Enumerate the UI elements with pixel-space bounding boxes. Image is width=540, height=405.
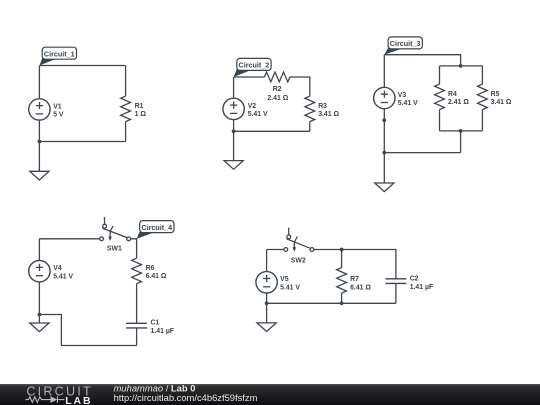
wire V2 top [233, 77, 235, 98]
ground G5 [257, 323, 276, 332]
svg-text:6.41 Ω: 6.41 Ω [146, 273, 167, 280]
svg-text:1.41 µF: 1.41 µF [151, 328, 175, 335]
switch SW2 [284, 228, 314, 252]
resistor R4 [435, 84, 445, 110]
svg-text:R7: R7 [350, 276, 359, 283]
svg-text:http://circuitlab.com/c4b6zf59: http://circuitlab.com/c4b6zf59fsfzm [114, 392, 258, 403]
svg-text:2.41 Ω: 2.41 Ω [448, 99, 469, 106]
V2 minus sign [230, 112, 237, 114]
wire top C1 [39, 65, 125, 67]
callout Circuit_4 [137, 221, 174, 239]
svg-text:V4: V4 [53, 265, 62, 272]
node junction C3 bottom bar [459, 129, 463, 133]
switch SW1 [100, 217, 131, 241]
resistor R6 [132, 258, 142, 284]
svg-text:R2: R2 [273, 86, 282, 93]
voltage source V4 [29, 261, 50, 282]
wire R5 top [481, 66, 483, 84]
svg-text:6.41 Ω: 6.41 Ω [350, 285, 371, 292]
svg-text:1.41 µF: 1.41 µF [410, 284, 434, 291]
ground stem C2 [233, 131, 235, 160]
V5 plus sign [263, 275, 270, 282]
V5 minus sign [263, 286, 270, 288]
wire right-lower C1 [125, 122, 127, 142]
ground stem C4 [38, 315, 40, 324]
ground G1 [30, 171, 49, 180]
V3 minus sign [381, 102, 388, 104]
voltage source V3 [374, 87, 395, 108]
svg-text:R4: R4 [448, 91, 457, 98]
node junction C1 bottom [38, 140, 42, 144]
wire R7 bottom [341, 293, 343, 303]
svg-text:V1: V1 [53, 103, 62, 110]
wire V5 top [266, 250, 268, 272]
capacitor C2 [385, 279, 406, 284]
wire top-right C2 [290, 77, 310, 96]
V4 plus sign [36, 264, 43, 271]
wire top-left C4 [39, 238, 99, 240]
svg-text:1 Ω: 1 Ω [135, 111, 147, 118]
logo resistor zigzag and diode [26, 396, 65, 403]
wire V4 bottom [38, 282, 40, 315]
svg-text:5.41 V: 5.41 V [248, 111, 268, 118]
wire C2 cap bottom [395, 283, 397, 303]
wire C1 cap bottom [136, 328, 138, 346]
wire R4 bottom [439, 110, 441, 131]
svg-text:LAB: LAB [65, 395, 92, 405]
wire parallel bottom bar [440, 130, 483, 132]
node junction C2 bottom [232, 129, 236, 133]
svg-text:C1: C1 [151, 320, 160, 327]
wire V5 bottom [266, 293, 268, 303]
wire bottom C2 [234, 130, 310, 132]
wire V3 bottom [383, 109, 385, 153]
svg-text:Circuit_1: Circuit_1 [44, 49, 75, 58]
wire top-left C5 [267, 249, 284, 251]
V2 plus sign [230, 102, 237, 109]
svg-text:Circuit_3: Circuit_3 [390, 39, 421, 48]
resistor R7 [337, 268, 347, 294]
wire R4 top [439, 66, 441, 84]
wire parallel top bar [440, 65, 483, 67]
ground G4 [30, 323, 49, 332]
svg-text:5.41 V: 5.41 V [53, 273, 73, 280]
wire bottom C3 [384, 152, 460, 154]
svg-text:5.41 V: 5.41 V [280, 285, 300, 292]
node junction C3 bottom-left [382, 151, 386, 155]
svg-text:V2: V2 [248, 103, 257, 110]
ground G3 [375, 183, 394, 192]
wire V1 top [38, 66, 40, 99]
V4 minus sign [36, 275, 43, 277]
node junction V3 terminal [382, 118, 386, 122]
wire R5 bottom [481, 110, 483, 131]
svg-text:R3: R3 [318, 103, 327, 110]
svg-text:Circuit_2: Circuit_2 [239, 61, 270, 70]
V3 plus sign [381, 91, 388, 98]
node junction C5 V5 bottom [265, 301, 269, 305]
wire R7 top [341, 250, 343, 268]
node junction C5 R7 top [340, 248, 344, 252]
wire right-lower C2 [309, 122, 311, 132]
svg-text:R1: R1 [135, 103, 144, 110]
V1 minus sign [36, 113, 43, 115]
callout Circuit_1 [40, 47, 77, 65]
svg-text:SW2: SW2 [291, 258, 306, 265]
wire top-left C2 [234, 76, 265, 78]
wire right-upper C1 [125, 66, 127, 97]
svg-text:5.41 V: 5.41 V [398, 100, 418, 107]
resistor R5 [478, 84, 488, 110]
ground stem C3 [383, 153, 385, 183]
svg-text:5 V: 5 V [53, 112, 64, 119]
wire V3 top [383, 55, 385, 88]
wire bottom C4 [39, 315, 136, 346]
svg-text:R5: R5 [491, 91, 500, 98]
callout Circuit_2 [234, 58, 272, 77]
svg-text:SW1: SW1 [107, 246, 122, 253]
ground G2 [224, 161, 243, 170]
svg-text:Circuit_4: Circuit_4 [141, 223, 172, 232]
node junction C3 top bar [459, 64, 463, 68]
V1 plus sign [36, 102, 43, 109]
resistor R1 [121, 96, 131, 122]
svg-text:C2: C2 [410, 276, 419, 283]
wire bottom C1 [39, 141, 125, 143]
svg-text:V3: V3 [398, 92, 407, 99]
wire bottom C5 [267, 302, 396, 304]
wire V1 bottom [38, 120, 40, 141]
wire top C3 [384, 55, 460, 66]
wire switch to C2 cap corner [314, 250, 396, 279]
resistor R2 [264, 72, 290, 82]
voltage source V5 [256, 272, 277, 293]
node junction C4 bottom [38, 313, 42, 317]
wire R6 to C1 cap [136, 284, 138, 324]
wire parallel to bottom [460, 131, 462, 153]
svg-text:V5: V5 [280, 276, 289, 283]
callout Circuit_3 [384, 37, 422, 55]
node junction C5 R7 bottom [340, 301, 344, 305]
wire V4 top [38, 239, 40, 261]
wire switch to corner C4 [131, 239, 137, 258]
resistor R3 [305, 96, 315, 122]
ground stem C1 [38, 142, 40, 172]
voltage source V1 [29, 99, 50, 120]
wire V2 bottom [233, 120, 235, 132]
svg-text:R6: R6 [146, 265, 155, 272]
svg-text:2.41 Ω: 2.41 Ω [267, 95, 288, 102]
ground stem C5 [266, 303, 268, 323]
capacitor C1 [126, 323, 147, 328]
svg-text:3.41 Ω: 3.41 Ω [491, 99, 512, 106]
voltage source V2 [223, 98, 244, 119]
svg-text:3.41 Ω: 3.41 Ω [318, 111, 339, 118]
